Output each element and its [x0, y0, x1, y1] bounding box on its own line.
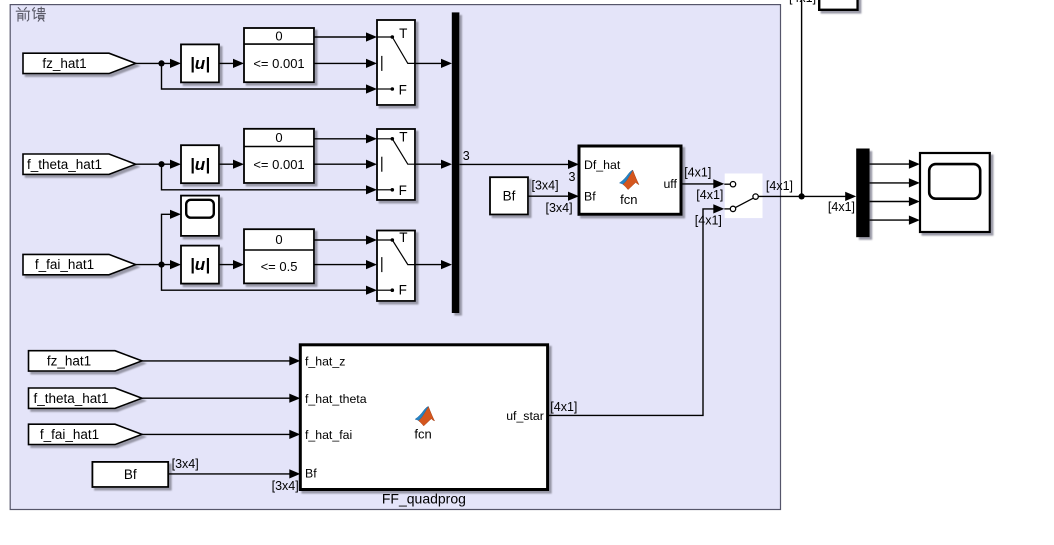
wire f_fai_hat1 to abs U1c	[136, 264, 176, 266]
abs block U1b |u|	[181, 145, 219, 183]
svg-text:[3x4]: [3x4]	[172, 457, 199, 471]
svg-text:Df_hat: Df_hat	[584, 158, 621, 172]
MATLAB logo U2	[619, 170, 639, 189]
svg-text:3: 3	[569, 170, 576, 184]
svg-text:fz_hat1: fz_hat1	[42, 56, 86, 71]
wire M2 out 2 to scope	[870, 182, 915, 184]
switch SW3	[377, 231, 415, 302]
wire M2 out 4 to scope	[870, 219, 915, 221]
node J3	[158, 262, 164, 268]
from tag f_fai_hat1	[23, 254, 136, 274]
wire SW2 to mux M1	[415, 163, 447, 165]
svg-text:[4x1]: [4x1]	[789, 0, 816, 5]
switch SW2	[377, 129, 415, 200]
wire U1c to compare C3	[219, 264, 239, 266]
constant Bf B1	[490, 177, 528, 214]
MATLAB function U2 fcn	[579, 146, 681, 214]
svg-text:f_hat_z: f_hat_z	[305, 355, 345, 369]
mux M1	[452, 12, 460, 313]
wire J3 to scope S1	[162, 214, 177, 264]
wire B2 to U3 Bf	[168, 473, 295, 475]
wire SW3 to mux M1	[415, 264, 447, 266]
abs block U1c |u|	[181, 246, 219, 284]
svg-text:fz_hat1: fz_hat1	[47, 354, 91, 369]
svg-text:[4x1]: [4x1]	[550, 400, 577, 414]
wire C2 const to switch SW2 T	[314, 138, 372, 140]
svg-text:T: T	[399, 230, 407, 245]
from tag f_theta_hat1 (lower)	[29, 388, 143, 408]
svg-text:|u|: |u|	[190, 54, 210, 73]
area 前馈	[10, 5, 780, 510]
svg-text:f_hat_theta: f_hat_theta	[305, 392, 367, 406]
wire bypass J3 to SW3 F	[162, 265, 373, 291]
wire bypass J2 to SW2 F	[162, 164, 373, 190]
from tag fz_hat1 (lower)	[29, 351, 143, 371]
svg-text:3: 3	[463, 149, 470, 163]
wire B1 to U2 Bf	[528, 195, 574, 197]
svg-text:FF_quadprog: FF_quadprog	[382, 491, 466, 507]
svg-text:f_fai_hat1: f_fai_hat1	[35, 257, 94, 272]
svg-text:[4x1]: [4x1]	[828, 200, 855, 214]
wire f_theta_hat1 to U3 f_hat_theta	[142, 397, 295, 399]
constant 0 / compare C2 <= 0.001	[244, 129, 314, 183]
switch SW1	[377, 20, 415, 105]
svg-text:[3x4]: [3x4]	[532, 178, 559, 192]
svg-text:Bf: Bf	[305, 467, 317, 481]
svg-text:[4x1]: [4x1]	[684, 166, 711, 180]
node J2	[158, 161, 164, 167]
svg-text:0: 0	[275, 130, 282, 145]
svg-text:0: 0	[275, 29, 282, 44]
wire M2 out 3 to scope	[870, 201, 915, 203]
svg-text:<= 0.5: <= 0.5	[261, 259, 298, 274]
from tag f_theta_hat1	[23, 154, 136, 174]
wire C3 compare out to switch SW3 control	[314, 264, 372, 266]
svg-text:F: F	[399, 82, 407, 97]
svg-text:<= 0.001: <= 0.001	[253, 157, 304, 172]
svg-text:T: T	[399, 129, 407, 144]
constant 0 / compare C1 <= 0.001	[244, 28, 314, 82]
constant Bf B2	[92, 462, 168, 487]
svg-text:[3x4]: [3x4]	[272, 479, 299, 493]
wire fz_hat1 to U3 f_hat_z	[142, 360, 295, 362]
area label 前馈	[16, 7, 45, 21]
scope S1 (small)	[181, 196, 219, 236]
block top right (clipped)	[819, 0, 857, 10]
manual switch SW4	[725, 174, 763, 219]
wire f_fai_hat1 to U3 f_hat_fai	[142, 433, 295, 435]
wire bypass J1 to SW1 F	[162, 63, 373, 89]
wire J4 to top edge	[801, 0, 803, 196]
wire M1 to fcn U2 Df_hat	[459, 163, 574, 165]
wire fz_hat1 to abs U1a	[136, 62, 176, 64]
subsystem U3 FF_quadprog	[300, 345, 547, 490]
from tag fz_hat1	[23, 53, 136, 73]
wire C1 compare out to switch SW1 control	[314, 62, 372, 64]
svg-text:Bf: Bf	[584, 190, 596, 204]
svg-text:|u|: |u|	[190, 155, 210, 174]
MATLAB logo U3	[415, 407, 435, 426]
svg-text:<= 0.001: <= 0.001	[253, 56, 304, 71]
demux M2	[856, 149, 869, 238]
svg-text:F: F	[399, 283, 407, 298]
svg-text:|u|: |u|	[190, 255, 210, 274]
svg-text:[3x4]: [3x4]	[546, 201, 573, 215]
svg-text:fcn: fcn	[620, 192, 637, 207]
svg-text:uff: uff	[663, 177, 677, 191]
svg-text:fcn: fcn	[414, 427, 431, 442]
wire U1b to compare C2	[219, 163, 239, 165]
node J1	[158, 60, 164, 66]
scope SC1	[920, 153, 990, 232]
svg-text:f_fai_hat1: f_fai_hat1	[40, 427, 99, 442]
wire f_theta_hat1 to abs U1b	[136, 163, 176, 165]
from tag f_fai_hat1 (lower)	[29, 424, 143, 444]
wire M2 out 1 to scope	[870, 163, 915, 165]
constant 0 / compare C3 <= 0.5	[244, 229, 314, 283]
wire C3 const to switch SW3 T	[314, 239, 372, 241]
wire C2 compare out to switch SW2 control	[314, 163, 372, 165]
svg-text:0: 0	[275, 232, 282, 247]
svg-text:[4x1]: [4x1]	[695, 214, 722, 228]
node J4	[799, 193, 805, 199]
wire SW1 to mux M1	[415, 62, 447, 64]
wire U2 uff to manual switch SW4	[681, 183, 720, 185]
svg-text:Bf: Bf	[124, 467, 137, 482]
svg-text:f_hat_fai: f_hat_fai	[305, 428, 352, 442]
wire C1 const to switch SW1 T	[314, 36, 372, 38]
wire U3 uf_star to SW4 second input	[548, 209, 720, 416]
svg-text:Bf: Bf	[503, 188, 516, 203]
svg-text:[4x1]: [4x1]	[696, 188, 723, 202]
svg-text:[4x1]: [4x1]	[766, 179, 793, 193]
svg-text:f_theta_hat1: f_theta_hat1	[33, 391, 108, 406]
svg-text:F: F	[399, 183, 407, 198]
svg-text:uf_star: uf_star	[506, 409, 544, 423]
wire SW4 to demux M2	[758, 195, 851, 197]
abs block U1a |u|	[181, 44, 219, 82]
wire U1a to compare C1	[219, 62, 239, 64]
svg-text:T: T	[399, 26, 407, 41]
svg-text:f_theta_hat1: f_theta_hat1	[27, 157, 102, 172]
